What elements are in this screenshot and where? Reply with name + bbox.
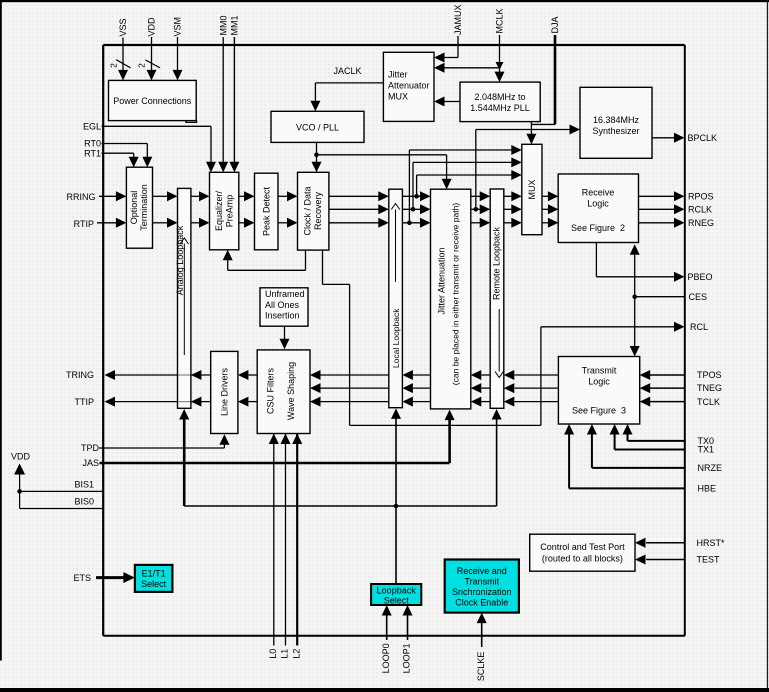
- svg-text:TCLK: TCLK: [697, 397, 720, 407]
- wire transmit row2 seg tl-remoteloop: [515, 387, 559, 389]
- svg-text:L1: L1: [280, 649, 290, 659]
- wire equalizer feedback: [305, 250, 307, 270]
- wire mux bypass line 1: [409, 149, 513, 151]
- wire RCLK output: [638, 208, 676, 210]
- wire SCLKE net: [481, 622, 483, 647]
- wire receive row1 seg analog-equalizer: [191, 195, 200, 197]
- node analog loopback input arrows: [167, 191, 178, 201]
- svg-text:Transmit: Transmit: [464, 577, 499, 587]
- svg-text:EGL: EGL: [83, 121, 101, 131]
- svg-text:DJA: DJA: [550, 16, 560, 33]
- node remote loopback control arrow: [492, 409, 502, 420]
- node remote loopback receive arrows: [480, 191, 491, 201]
- svg-text:TNEG: TNEG: [697, 383, 722, 393]
- pin TNEG: [640, 383, 651, 393]
- wire NRZE net: [591, 434, 593, 468]
- wire receive row3 seg cdr-localloop: [329, 222, 380, 224]
- svg-text:RPOS: RPOS: [688, 192, 714, 202]
- pin TEST: [635, 555, 646, 565]
- node VDD BIS junction: [17, 489, 22, 494]
- wire remote loopback control: [496, 418, 498, 507]
- wire receive row2 seg opt-analog: [153, 222, 169, 224]
- svg-text:Peak Detect: Peak Detect: [261, 186, 271, 236]
- node receive logic sync arrow: [630, 244, 640, 255]
- svg-text:Equalizer/: Equalizer/: [214, 190, 224, 231]
- node bypass junction dots: [407, 221, 412, 226]
- node analog loopback internal arrow: [180, 238, 188, 244]
- node jitter attenuation receive arrows: [420, 191, 431, 201]
- pin BPCLK: [674, 133, 685, 143]
- block Equalizer/PreAmp: [210, 172, 239, 250]
- svg-text:2: 2: [137, 63, 147, 68]
- wire analog loopback control: [183, 418, 186, 507]
- block CSU Filters Wave Shaping: [257, 350, 310, 434]
- wire receive row1 seg cdr-localloop: [329, 195, 380, 197]
- svg-text:RRING: RRING: [67, 192, 96, 202]
- wire TX1 net: [614, 434, 616, 450]
- wire receive row1 seg equalizer-peak: [239, 195, 245, 197]
- wire loopback control bus: [184, 505, 496, 507]
- wire TTIP net: [114, 401, 211, 403]
- wire transmit row2 seg remoteloop-ja: [482, 387, 491, 389]
- svg-text:PBEO: PBEO: [688, 272, 713, 282]
- node sclke arrow: [477, 613, 487, 624]
- wire RPOS output: [638, 195, 676, 197]
- svg-text:Jitter Attenuation: Jitter Attenuation: [437, 247, 447, 314]
- svg-text:VDD: VDD: [11, 452, 31, 462]
- svg-text:Insertion: Insertion: [265, 311, 300, 321]
- block Power Connections: [109, 80, 197, 120]
- svg-text:Control and Test Port: Control and Test Port: [540, 542, 625, 552]
- svg-text:RT1: RT1: [84, 148, 101, 158]
- wire TPD net: [99, 447, 224, 449]
- pin TCLK: [640, 397, 651, 407]
- svg-text:RCL: RCL: [690, 322, 708, 332]
- svg-text:BIS0: BIS0: [74, 496, 94, 506]
- wire transmit row3 seg tl-remoteloop: [515, 401, 559, 403]
- svg-text:Local Loopback: Local Loopback: [391, 308, 401, 368]
- wire transmit row3 seg ja-localloop: [413, 401, 431, 403]
- svg-text:JAMUX: JAMUX: [453, 4, 463, 35]
- frame top border: [0, 0, 769, 2]
- svg-text:HRST*: HRST*: [697, 538, 725, 548]
- svg-text:Unframed: Unframed: [265, 289, 305, 299]
- wire transmit row1 seg remoteloop-ja: [482, 374, 491, 376]
- node csu transmit input arrows: [310, 370, 321, 380]
- wire transmit row1 seg localloop-csu: [321, 374, 389, 376]
- wire synthesizer feed: [475, 130, 477, 210]
- node equalizer feedback arrow: [223, 250, 233, 260]
- node receive logic input arrows: [548, 191, 559, 201]
- block 2.048MHz to 1.544MHz PLL: [460, 82, 540, 122]
- svg-text:2.048MHz to: 2.048MHz to: [474, 92, 525, 102]
- wire TPOS TNEG TCLK input row2: [650, 387, 685, 389]
- wire PLL to JA MUX: [444, 101, 460, 103]
- svg-text:Select: Select: [384, 595, 410, 605]
- wire line-driver seg row2: [249, 401, 258, 403]
- svg-text:TEST: TEST: [697, 555, 721, 565]
- wire receive row2 seg ja-remoteloop: [471, 208, 482, 210]
- wire big-box right edge: [684, 45, 686, 636]
- wire LOOP1 net: [407, 615, 409, 641]
- wire MM0 line: [222, 37, 224, 167]
- wire VCO branch to jitter attenuation: [317, 154, 447, 156]
- wire transmit row3 seg localloop-csu: [321, 401, 389, 403]
- wire RTIP segment A: [97, 222, 117, 224]
- block Line Drivers: [211, 351, 238, 433]
- svg-text:(can be placed in either trans: (can be placed in either transmit or rec…: [450, 203, 460, 386]
- block MUX: [522, 144, 542, 234]
- svg-text:CES: CES: [689, 292, 708, 302]
- wire BIS1 net: [20, 490, 104, 492]
- svg-text:RT0: RT0: [84, 139, 101, 149]
- svg-text:See Figure 2: See Figure 2: [571, 223, 625, 233]
- block VCO / PLL: [271, 111, 364, 142]
- wire receive row1 seg peak-cdr: [278, 195, 288, 197]
- svg-text:LOOP0: LOOP0: [381, 643, 391, 673]
- svg-text:TPOS: TPOS: [697, 370, 722, 380]
- wire receive row3 seg mux-receivelogic: [542, 222, 550, 224]
- pin RCLK: [674, 204, 685, 214]
- wire JAMUX line: [457, 36, 459, 58]
- svg-text:ETS: ETS: [73, 573, 91, 583]
- frame bottom band: [0, 688, 769, 692]
- wire line-driver seg row1: [249, 374, 258, 376]
- svg-text:CSU Filters: CSU Filters: [266, 368, 276, 415]
- wire MCLK to PLL: [499, 69, 501, 73]
- wire receive row1 seg opt-analog: [153, 195, 169, 197]
- node mux receive arrows: [511, 191, 522, 201]
- node analog loopback transmit arrows: [191, 370, 202, 380]
- wire TPOS TNEG TCLK input row1: [650, 374, 685, 376]
- wire BPCLK net: [652, 137, 676, 139]
- block Control and Test Port: [530, 534, 635, 571]
- pin HRST: [635, 538, 646, 548]
- wire RT0 net: [102, 143, 148, 145]
- svg-text:MM1: MM1: [230, 16, 240, 36]
- wire receive row1 seg localloop-ja: [402, 195, 421, 197]
- block Optional Termination: [126, 167, 152, 248]
- svg-text:Snchronization: Snchronization: [452, 587, 512, 597]
- svg-text:Remote Loopback: Remote Loopback: [491, 226, 501, 300]
- wire JAS net: [100, 462, 450, 465]
- node VCO output junction: [314, 153, 319, 158]
- svg-text:TPD: TPD: [81, 443, 100, 453]
- node remote loopback internal arrow: [495, 372, 503, 378]
- wire receive row2 seg remoteloop-mux: [504, 208, 513, 210]
- node loopback select input arrows: [382, 605, 392, 616]
- wire receive row3 seg localloop-ja: [402, 222, 421, 224]
- pin TPOS: [640, 370, 651, 380]
- wire receive row2 seg mux-receivelogic: [542, 208, 550, 210]
- wire MCLK branch to JA MUX: [444, 67, 500, 69]
- svg-text:MUX: MUX: [527, 180, 537, 200]
- svg-text:Optional: Optional: [129, 191, 139, 225]
- svg-text:HBE: HBE: [698, 484, 717, 494]
- node remote loopback transmit arrows: [504, 370, 515, 380]
- svg-text:Synthesizer: Synthesizer: [592, 126, 639, 136]
- wire receive-transmit sync: [634, 253, 636, 347]
- pin PBEO: [674, 272, 685, 282]
- wire DJA line: [554, 35, 557, 124]
- wire transmit row1 seg tl-remoteloop: [515, 374, 559, 376]
- svg-text:Line Drivers: Line Drivers: [220, 367, 230, 416]
- block Transmit Logic: [558, 357, 639, 425]
- svg-text:LOOP1: LOOP1: [402, 643, 412, 673]
- wire RNEG output: [638, 222, 676, 224]
- svg-text:Attenuator: Attenuator: [388, 81, 430, 91]
- wire big-box left edge: [102, 45, 104, 636]
- block Receive Logic: [558, 174, 638, 243]
- block Jitter Attenuator MUX: [383, 52, 434, 121]
- svg-text:TRING: TRING: [66, 370, 94, 380]
- svg-text:VSM: VSM: [173, 17, 183, 37]
- svg-text:L0: L0: [268, 649, 278, 659]
- node transmit logic top arrow: [630, 346, 640, 357]
- svg-text:L2: L2: [291, 649, 301, 659]
- wire TX0 net: [627, 434, 629, 441]
- svg-text:Clock / Data: Clock / Data: [303, 186, 313, 235]
- svg-text:Jitter: Jitter: [388, 70, 408, 80]
- node unframed to csu arrow: [280, 339, 290, 350]
- svg-text:VSS: VSS: [118, 18, 128, 36]
- node synthesizer input arrow: [570, 125, 581, 135]
- svg-text:BIS1: BIS1: [74, 479, 94, 489]
- node mux bypass arrows: [511, 145, 522, 155]
- svg-text:VDD: VDD: [147, 17, 157, 37]
- wire receive row1 seg ja-remoteloop: [471, 195, 482, 197]
- node analog loopback control arrow: [179, 409, 189, 420]
- svg-text:1.544MHz PLL: 1.544MHz PLL: [470, 103, 530, 113]
- wire transmit row1 seg ja-localloop: [413, 374, 431, 376]
- block E1/T1 Select: [135, 565, 173, 592]
- block 16.384MHz Synthesizer: [580, 87, 652, 158]
- svg-text:Receive: Receive: [582, 188, 615, 198]
- pin CES: [632, 294, 637, 299]
- wire receive row1 seg remoteloop-mux: [504, 195, 513, 197]
- wire transmit row2 seg ja-localloop: [413, 387, 431, 389]
- svg-text:Recovery: Recovery: [313, 191, 323, 230]
- node equalizer input arrows: [199, 191, 210, 201]
- svg-text:Select: Select: [141, 579, 167, 589]
- node line drivers input arrows: [238, 370, 249, 380]
- wire local loopback control: [395, 417, 397, 585]
- wire HRST input: [646, 542, 685, 544]
- node JACLK arrow: [310, 101, 320, 112]
- svg-text:E1/T1: E1/T1: [142, 568, 166, 578]
- wire TRING net: [114, 374, 211, 376]
- wire VDD bus slash: [146, 60, 161, 68]
- wire CES net: [635, 296, 685, 298]
- node local loopback control arrow: [391, 408, 401, 419]
- wire transmit row3 seg remoteloop-ja: [482, 401, 491, 403]
- block Clock / Data Recovery: [298, 172, 329, 250]
- node peak detect input arrows: [244, 191, 255, 201]
- svg-text:Logic: Logic: [587, 199, 609, 209]
- svg-text:See Figure 3: See Figure 3: [572, 406, 626, 416]
- pin RPOS: [674, 191, 685, 201]
- svg-text:16.384MHz: 16.384MHz: [593, 115, 640, 125]
- svg-text:Wave Shaping: Wave Shaping: [286, 362, 296, 420]
- block Local Loopback: [389, 189, 403, 408]
- wire big-box top edge: [103, 44, 685, 46]
- wire TPOS TNEG TCLK input row3: [650, 401, 685, 403]
- svg-text:Transmit: Transmit: [582, 366, 617, 376]
- wire unframed to csu: [284, 326, 286, 340]
- pin RNEG: [674, 218, 685, 228]
- node local loopback receive arrows: [378, 191, 389, 201]
- svg-text:JACLK: JACLK: [333, 66, 361, 76]
- svg-text:BPCLK: BPCLK: [688, 133, 718, 143]
- node cdr input arrows: [287, 191, 298, 201]
- svg-text:Analog Loopback: Analog Loopback: [175, 225, 185, 295]
- block Loopback Select: [371, 584, 421, 605]
- frame right border: [767, 0, 768, 688]
- wire VSM line: [177, 37, 179, 76]
- svg-text:Termination: Termination: [139, 184, 149, 231]
- wire big-box bottom edge: [103, 635, 685, 637]
- svg-text:Logic: Logic: [588, 377, 610, 387]
- wire transmit row2 seg localloop-csu: [321, 387, 389, 389]
- wire TEST input: [646, 559, 685, 561]
- svg-text:VCO / PLL: VCO / PLL: [296, 123, 339, 133]
- svg-text:SCLKE: SCLKE: [476, 652, 486, 682]
- wire receive row2 seg peak-cdr: [278, 222, 288, 224]
- wire EGL net: [102, 125, 212, 127]
- svg-text:2: 2: [109, 63, 119, 68]
- block Jitter Attenuation: [431, 189, 471, 409]
- wire VSS bus slash: [116, 60, 130, 68]
- wire VDD line: [151, 37, 153, 76]
- svg-text:Power Connections: Power Connections: [113, 96, 192, 106]
- wire receive row2 seg equalizer-peak: [239, 222, 245, 224]
- wire HBE net: [568, 434, 570, 489]
- wire L2 net: [296, 434, 298, 646]
- node local loopback transmit arrows: [402, 370, 413, 380]
- wire VCO output: [316, 142, 318, 162]
- svg-text:TTIP: TTIP: [75, 397, 95, 407]
- frame left border: [0, 0, 2, 661]
- wire VDD pullup: [19, 474, 21, 509]
- block Remote Loopback: [490, 189, 504, 408]
- svg-text:Clock Enable: Clock Enable: [455, 598, 508, 608]
- wire JACLK net: [315, 82, 383, 84]
- block Receive and Transmit Snchronization Clock Enable: [445, 560, 519, 613]
- svg-text:PreAmp: PreAmp: [225, 195, 235, 228]
- block Analog Loopback: [178, 188, 191, 408]
- wire L0 net: [273, 434, 275, 646]
- node jitter attenuation transmit arrows: [471, 370, 482, 380]
- wire receive row3 seg remoteloop-mux: [504, 222, 513, 224]
- block Peak Detect: [255, 173, 279, 250]
- wire PBEO net: [595, 243, 597, 277]
- svg-text:All Ones: All Ones: [265, 300, 300, 310]
- svg-text:RCLK: RCLK: [688, 205, 712, 215]
- node PLL to JA MUX arrow: [434, 97, 445, 107]
- svg-text:Receive and: Receive and: [457, 566, 507, 576]
- wire mux bypass line 2: [413, 161, 513, 163]
- wire ETS net: [96, 576, 126, 579]
- node transmit logic bottom arrows: [623, 424, 633, 435]
- wire LOOP0 net: [386, 615, 388, 641]
- wire RCL net: [322, 250, 324, 284]
- wire receive row2 seg analog-equalizer: [191, 222, 200, 224]
- svg-text:TX1: TX1: [698, 445, 715, 455]
- svg-text:MCLK: MCLK: [495, 8, 505, 33]
- wire receive row3 seg ja-remoteloop: [471, 222, 482, 224]
- svg-text:JAS: JAS: [82, 458, 99, 468]
- wire VSS line: [122, 38, 124, 77]
- wire PLL bottom to MUX top: [530, 122, 532, 135]
- svg-text:NRZE: NRZE: [698, 463, 723, 473]
- svg-text:RTIP: RTIP: [74, 219, 94, 229]
- node csu bottom arrows: [269, 434, 279, 445]
- svg-text:RNEG: RNEG: [688, 218, 714, 228]
- block Unframed All Ones Insertion: [260, 288, 308, 326]
- node local loopback internal arrow: [391, 204, 399, 210]
- block Power Connections corner notch: [186, 121, 197, 123]
- pin RCL: [674, 322, 685, 332]
- wire RT1 net: [102, 152, 134, 154]
- wire MCLK line: [499, 35, 501, 62]
- wire BIS0 net: [20, 508, 104, 510]
- wire receive row2 seg localloop-ja: [402, 208, 421, 210]
- svg-text:Loopback: Loopback: [377, 586, 417, 596]
- wire receive row2 seg cdr-localloop: [329, 208, 380, 210]
- wire L1 net: [285, 434, 287, 646]
- wire mux bypass line 3: [417, 174, 513, 176]
- svg-text:MUX: MUX: [388, 92, 408, 102]
- svg-text:(routed to all blocks): (routed to all blocks): [542, 554, 623, 564]
- wire MM1 line: [233, 37, 235, 167]
- wire RRING segment A: [99, 195, 117, 197]
- svg-text:MM0: MM0: [218, 16, 228, 36]
- wire receive row1 seg mux-receivelogic: [542, 195, 550, 197]
